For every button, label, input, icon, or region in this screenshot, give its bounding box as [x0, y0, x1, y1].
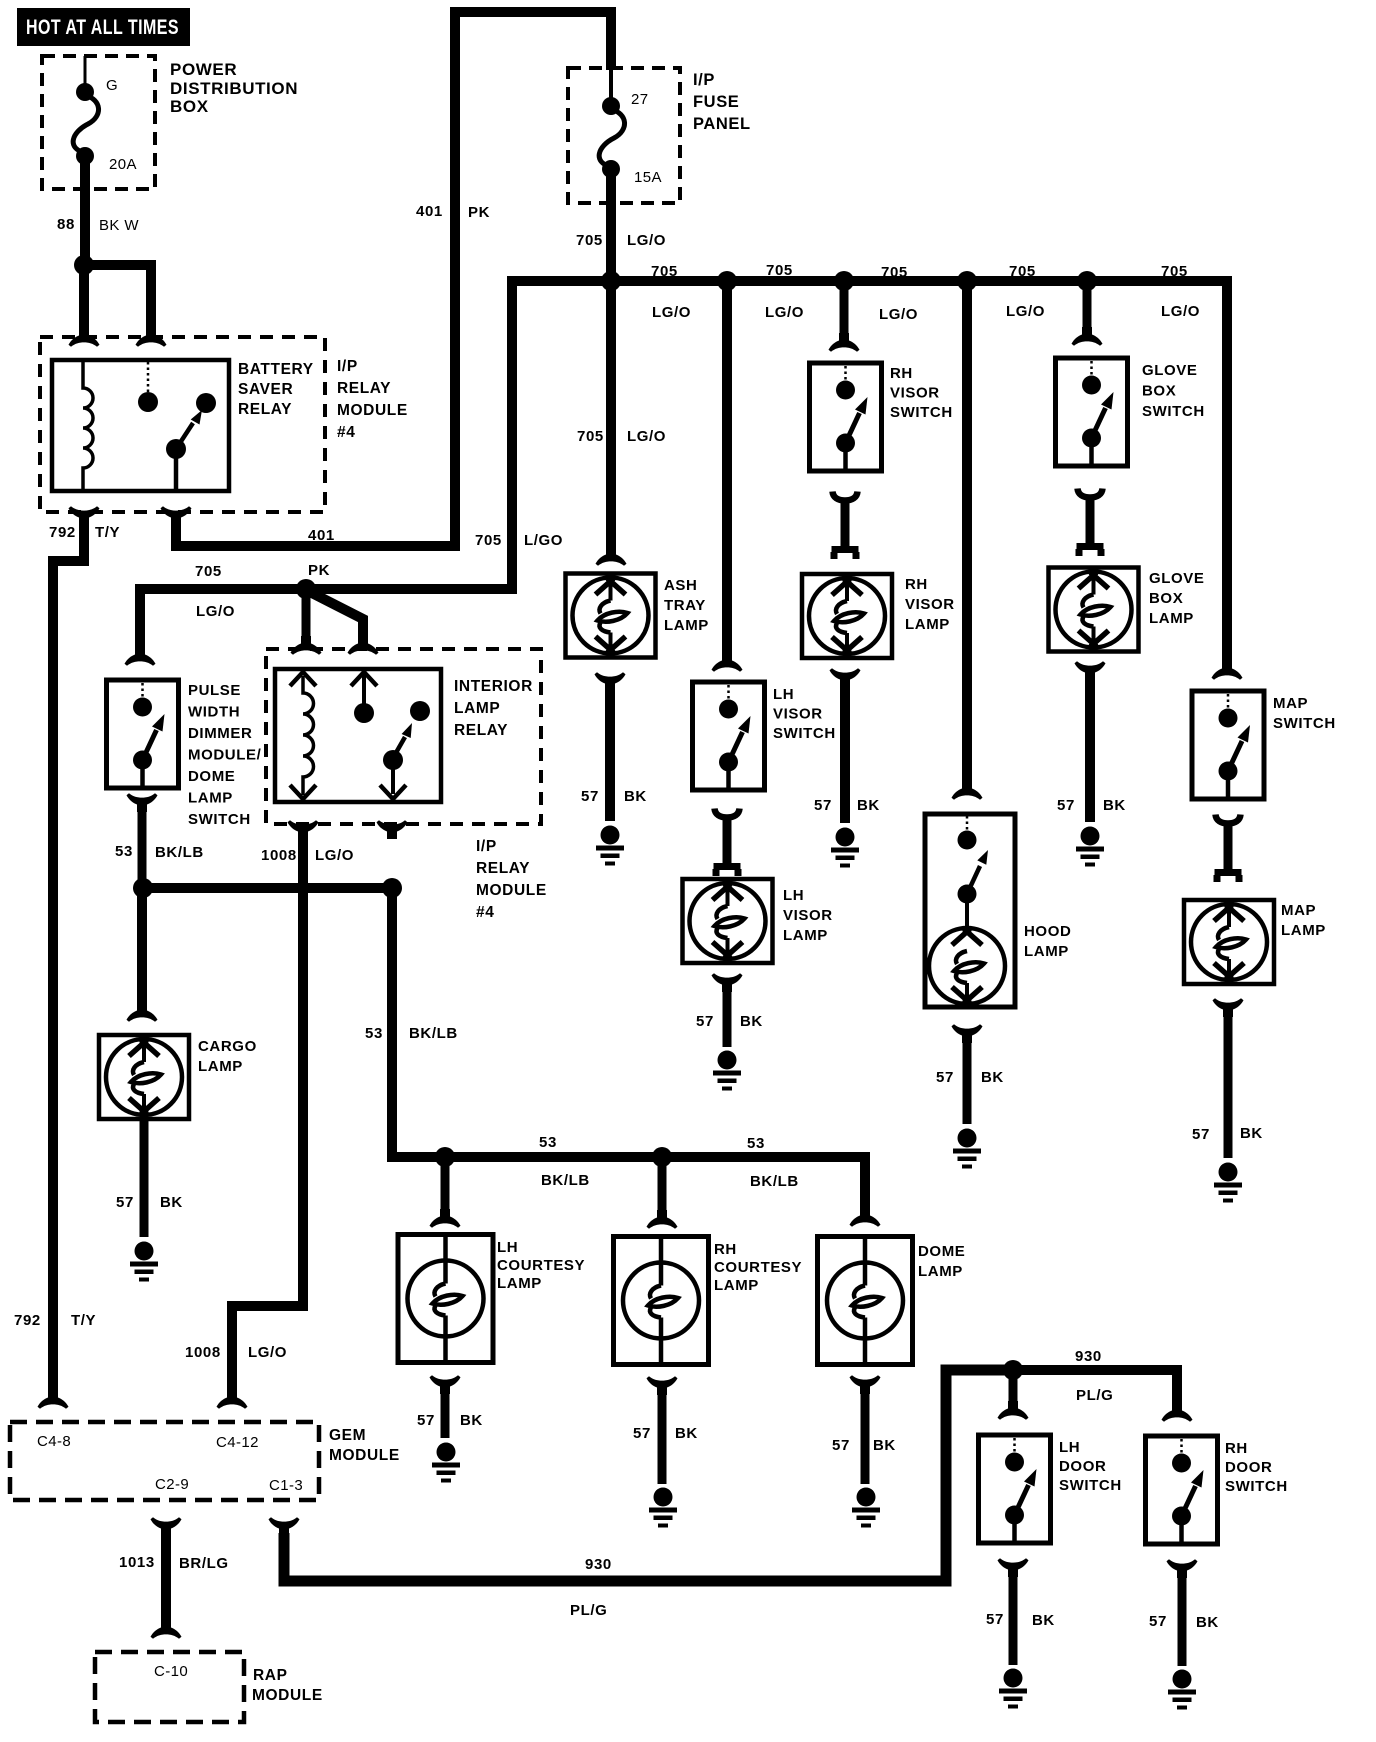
cargo lamp [99, 1035, 257, 1119]
connector above ash tray lamp [596, 547, 627, 566]
wire 57 BK hood lamp [936, 1040, 1004, 1124]
connector above map switch [1212, 661, 1243, 680]
svg-text:53: 53 [115, 843, 133, 860]
ground cargo lamp [130, 1242, 158, 1282]
svg-text:SWITCH: SWITCH [1225, 1478, 1288, 1495]
svg-text:LG/O: LG/O [248, 1344, 287, 1361]
svg-text:792: 792 [14, 1312, 41, 1329]
fuse 27 15A [599, 70, 662, 186]
hot at all times banner [17, 8, 190, 46]
svg-text:705: 705 [651, 263, 678, 280]
svg-text:57: 57 [581, 788, 599, 805]
svg-text:57: 57 [1057, 797, 1075, 814]
wire 1008 LG/O relay to GEM C4-12 [185, 836, 354, 1392]
connector below RH courtesy lamp [647, 1376, 678, 1395]
svg-text:VISOR: VISOR [890, 385, 940, 402]
svg-text:SWITCH: SWITCH [1059, 1477, 1122, 1494]
wire bus to RH visor switch [840, 281, 849, 337]
wire 57 BK LH courtesy [417, 1391, 483, 1438]
wire 930 PL/G to RH door switch [1013, 1348, 1177, 1407]
wire node to cargo lamp [137, 888, 147, 1007]
connector below pulse width dimmer [127, 793, 158, 812]
svg-text:BK: BK [740, 1013, 763, 1030]
svg-text:LAMP: LAMP [918, 1263, 963, 1280]
connector above glove box switch [1072, 327, 1103, 346]
hood lamp (switch + bulb) [925, 814, 1071, 1007]
svg-text:MODULE: MODULE [252, 1687, 323, 1704]
svg-text:LH: LH [773, 686, 794, 703]
svg-text:LG/O: LG/O [196, 603, 235, 620]
svg-text:53: 53 [747, 1135, 765, 1152]
svg-text:LAMP: LAMP [664, 617, 709, 634]
svg-text:MODULE/: MODULE/ [188, 747, 262, 764]
svg-text:57: 57 [116, 1194, 134, 1211]
svg-text:1013: 1013 [119, 1554, 155, 1571]
svg-text:LAMP: LAMP [714, 1277, 759, 1294]
svg-text:DOME: DOME [918, 1243, 965, 1260]
connector into relay module pin B [136, 328, 167, 347]
svg-text:705: 705 [577, 428, 604, 445]
svg-text:57: 57 [633, 1425, 651, 1442]
svg-text:27: 27 [631, 91, 649, 108]
svg-text:BOX: BOX [1149, 590, 1183, 607]
svg-text:TRAY: TRAY [664, 597, 706, 614]
connector below dome lamp [850, 1375, 881, 1394]
wire bus to LH visor switch [722, 281, 732, 657]
bus junction nodes [601, 271, 621, 291]
glove box lamp [1049, 568, 1205, 652]
svg-text:LAMP: LAMP [454, 700, 500, 717]
battery saver relay [52, 360, 314, 491]
svg-text:1008: 1008 [261, 847, 297, 864]
wire 57 BK LH door [986, 1574, 1055, 1665]
svg-text:DOOR: DOOR [1225, 1459, 1272, 1476]
node LH courtesy tap [435, 1147, 455, 1167]
svg-text:705: 705 [1009, 263, 1036, 280]
wire 792 T/Y left run [14, 516, 120, 1394]
svg-text:#4: #4 [476, 904, 494, 921]
svg-text:BK: BK [857, 797, 880, 814]
svg-text:BOX: BOX [1142, 383, 1176, 400]
svg-text:T/Y: T/Y [95, 524, 120, 541]
connector above RH courtesy lamp [647, 1210, 678, 1229]
svg-text:PANEL: PANEL [693, 115, 751, 133]
dome lamp [818, 1237, 966, 1365]
svg-text:LAMP: LAMP [783, 927, 828, 944]
battery saver relay switch arm [166, 393, 216, 491]
svg-text:LAMP: LAMP [1149, 610, 1194, 627]
svg-text:BATTERY: BATTERY [238, 361, 314, 378]
svg-text:SWITCH: SWITCH [1142, 403, 1205, 420]
RH visor lamp [802, 574, 955, 658]
svg-text:RELAY: RELAY [454, 722, 508, 739]
wire 930 PL/G from GEM to door switches [284, 1370, 1013, 1619]
wire to RH courtesy lamp [658, 1157, 667, 1214]
connector below RH door switch [1167, 1559, 1198, 1578]
wire node to interior lamp relay coil pin [302, 589, 311, 646]
svg-text:C4-8: C4-8 [37, 1433, 71, 1450]
svg-text:BK/LB: BK/LB [409, 1025, 458, 1042]
svg-text:LAMP: LAMP [1281, 922, 1326, 939]
svg-text:HOT AT ALL TIMES: HOT AT ALL TIMES [26, 16, 179, 39]
ground RH visor lamp [831, 828, 859, 868]
connector below LH door switch [998, 1558, 1029, 1577]
svg-text:LG/O: LG/O [652, 304, 691, 321]
bus 705 LG/O with right corner down to map switch [507, 281, 1227, 665]
node 930 junction [1003, 1360, 1023, 1380]
svg-text:LH: LH [1059, 1439, 1080, 1456]
connector out of relay module (792) [69, 506, 100, 525]
inline connector below LH visor switch [713, 809, 742, 877]
svg-text:LG/O: LG/O [1006, 303, 1045, 320]
interior lamp relay dashed box (I/P relay module #4) [266, 649, 547, 921]
ground hood lamp [953, 1129, 981, 1169]
pulse width dimmer module / dome lamp switch [107, 680, 262, 828]
battery saver relay coil [83, 360, 93, 491]
connector above RH visor switch [829, 333, 860, 352]
wire 53 BK/LB relay output down to courtesy bus [365, 888, 865, 1212]
wire bus to ash tray lamp [577, 281, 666, 551]
wire bus to hood lamp [962, 281, 972, 785]
svg-text:RH: RH [714, 1241, 737, 1258]
bus segment labels 705 LG/O [651, 262, 1200, 323]
svg-text:401: 401 [416, 203, 443, 220]
connector below glove box lamp [1075, 661, 1106, 680]
svg-text:RAP: RAP [253, 1667, 288, 1684]
svg-text:DOME: DOME [188, 768, 235, 785]
svg-text:401: 401 [308, 527, 335, 544]
ground LH courtesy lamp [432, 1443, 460, 1483]
svg-text:PULSE: PULSE [188, 682, 241, 699]
RH door switch [1146, 1436, 1288, 1544]
svg-text:BK: BK [1240, 1125, 1263, 1142]
connector below ash tray lamp [595, 672, 626, 691]
connector into RAP C-10 [151, 1620, 182, 1639]
svg-text:705: 705 [881, 264, 908, 281]
svg-text:INTERIOR: INTERIOR [454, 678, 533, 695]
svg-text:LAMP: LAMP [198, 1058, 243, 1075]
svg-text:MODULE: MODULE [337, 402, 408, 419]
svg-text:LG/O: LG/O [315, 847, 354, 864]
svg-text:57: 57 [696, 1013, 714, 1030]
interior relay coil with arrows [290, 672, 316, 799]
wire 705 LG/O fuse to bus [576, 175, 666, 281]
svg-text:RH: RH [905, 576, 928, 593]
fuse G 20A [73, 56, 137, 173]
connector out of GEM C1-3 [269, 1517, 300, 1536]
svg-text:LH: LH [783, 887, 804, 904]
svg-text:C2-9: C2-9 [155, 1476, 189, 1493]
ground ash tray lamp [596, 826, 624, 866]
svg-text:COURTESY: COURTESY [497, 1257, 585, 1274]
svg-text:20A: 20A [109, 156, 137, 173]
svg-text:LG/O: LG/O [1161, 303, 1200, 320]
inline connector below glove box switch [1076, 489, 1105, 557]
svg-text:DIMMER: DIMMER [188, 725, 252, 742]
svg-text:BK: BK [981, 1069, 1004, 1086]
svg-text:88: 88 [57, 216, 75, 233]
svg-text:BR/LG: BR/LG [179, 1555, 229, 1572]
svg-text:BOX: BOX [170, 97, 209, 116]
svg-text:T/Y: T/Y [71, 1312, 96, 1329]
ground RH courtesy lamp [649, 1488, 677, 1528]
svg-text:PL/G: PL/G [1076, 1387, 1113, 1404]
node junction 88 [74, 255, 94, 275]
svg-text:SWITCH: SWITCH [188, 811, 251, 828]
svg-text:RELAY: RELAY [476, 860, 530, 877]
svg-text:57: 57 [1192, 1126, 1210, 1143]
RH courtesy lamp [614, 1237, 803, 1365]
interior relay switch arm [380, 701, 430, 799]
connector above cargo lamp [127, 1003, 158, 1022]
svg-text:LG/O: LG/O [765, 304, 804, 321]
svg-text:MAP: MAP [1281, 902, 1316, 919]
connector into GEM C4-8 [38, 1390, 69, 1409]
node relay output [382, 878, 402, 898]
svg-text:705: 705 [576, 232, 603, 249]
ground glove box lamp [1076, 827, 1104, 867]
svg-text:SWITCH: SWITCH [773, 725, 836, 742]
svg-text:57: 57 [986, 1611, 1004, 1628]
bus left corner down to PK node [306, 276, 512, 589]
svg-text:BK W: BK W [99, 217, 139, 234]
svg-text:DISTRIBUTION: DISTRIBUTION [170, 79, 298, 98]
glove box switch [1056, 358, 1205, 466]
wire 57 BK cargo lamp [116, 1119, 183, 1237]
svg-text:LAMP: LAMP [905, 616, 950, 633]
node dimmer output [133, 878, 153, 898]
wire 401 PK from relay up to fuse panel [176, 12, 611, 546]
svg-text:15A: 15A [634, 169, 662, 186]
battery saver relay common pin [138, 362, 158, 412]
svg-text:COURTESY: COURTESY [714, 1259, 802, 1276]
ground LH visor lamp [713, 1051, 741, 1091]
svg-text:705: 705 [195, 563, 222, 580]
connector above hood lamp [952, 781, 983, 800]
connector above LH visor switch [712, 653, 743, 672]
connector above pulse width dimmer [125, 647, 156, 666]
svg-text:GLOVE: GLOVE [1142, 362, 1198, 379]
GEM module dashed box [10, 1422, 400, 1500]
svg-text:MAP: MAP [1273, 695, 1308, 712]
svg-text:SWITCH: SWITCH [1273, 715, 1336, 732]
svg-text:1008: 1008 [185, 1344, 221, 1361]
svg-text:930: 930 [1075, 1348, 1102, 1365]
svg-text:53: 53 [365, 1025, 383, 1042]
wire 57 BK RH visor lamp [814, 684, 880, 823]
svg-text:HOOD: HOOD [1024, 923, 1071, 940]
RAP module dashed box [95, 1652, 323, 1722]
svg-text:BK: BK [873, 1437, 896, 1454]
svg-text:57: 57 [417, 1412, 435, 1429]
node PK junction [296, 562, 330, 599]
interior relay common pin with up arrow [351, 672, 377, 723]
svg-text:BK: BK [675, 1425, 698, 1442]
svg-text:I/P: I/P [337, 358, 358, 375]
wire 53 cross link dimmer to relay output [143, 883, 392, 893]
wire to LH courtesy lamp [441, 1157, 450, 1213]
svg-text:LH: LH [497, 1239, 518, 1256]
svg-text:L/GO: L/GO [524, 532, 563, 549]
power distribution box [42, 56, 298, 189]
svg-text:BK/LB: BK/LB [750, 1173, 799, 1190]
svg-text:I/P: I/P [693, 71, 715, 89]
svg-text:MODULE: MODULE [329, 1447, 400, 1464]
svg-text:VISOR: VISOR [905, 596, 955, 613]
connector above RH door switch [1162, 1403, 1193, 1422]
svg-text:PL/G: PL/G [570, 1602, 607, 1619]
svg-text:LG/O: LG/O [627, 428, 666, 445]
connector out of GEM C2-9 [151, 1517, 182, 1536]
svg-text:GLOVE: GLOVE [1149, 570, 1205, 587]
node RH courtesy tap [652, 1147, 672, 1167]
svg-text:RH: RH [1225, 1440, 1248, 1457]
wire 57 BK map lamp [1192, 1014, 1263, 1158]
svg-text:RH: RH [890, 365, 913, 382]
ground LH door switch [999, 1669, 1027, 1709]
ground dome lamp [852, 1488, 880, 1528]
connector out of interior relay pin C [288, 820, 319, 839]
wire 1013 BR/LG [119, 1533, 229, 1623]
wire 57 BK RH courtesy [633, 1392, 698, 1484]
svg-text:705: 705 [475, 532, 502, 549]
svg-text:SWITCH: SWITCH [890, 404, 953, 421]
svg-text:C1-3: C1-3 [269, 1477, 303, 1494]
svg-text:57: 57 [1149, 1613, 1167, 1630]
svg-text:C4-12: C4-12 [216, 1434, 259, 1451]
wire 57 BK glove box lamp [1057, 677, 1126, 822]
svg-text:LAMP: LAMP [188, 790, 233, 807]
RH visor switch [810, 363, 953, 471]
svg-text:RELAY: RELAY [238, 401, 292, 418]
map switch [1192, 691, 1336, 799]
I/P fuse panel dashed box [568, 68, 751, 203]
svg-text:G: G [106, 77, 118, 94]
svg-text:LAMP: LAMP [1024, 943, 1069, 960]
svg-text:GEM: GEM [329, 1427, 366, 1444]
LH courtesy lamp [398, 1235, 585, 1363]
svg-text:WIDTH: WIDTH [188, 704, 240, 721]
svg-text:DOOR: DOOR [1059, 1458, 1106, 1475]
wire bus to glove box switch [1083, 281, 1092, 331]
svg-text:705: 705 [1161, 263, 1188, 280]
svg-text:57: 57 [936, 1069, 954, 1086]
svg-text:BK: BK [1032, 1612, 1055, 1629]
svg-text:VISOR: VISOR [783, 907, 833, 924]
svg-text:792: 792 [49, 524, 76, 541]
I/P relay module #4 dashed box (battery saver) [40, 337, 408, 512]
svg-text:LAMP: LAMP [497, 1275, 542, 1292]
svg-text:PK: PK [468, 204, 490, 221]
svg-text:CARGO: CARGO [198, 1038, 257, 1055]
svg-text:BK: BK [160, 1194, 183, 1211]
connector into relay module pin A [69, 328, 100, 347]
svg-text:BK: BK [460, 1412, 483, 1429]
connector above LH courtesy lamp [430, 1209, 461, 1228]
wire 705 LG/O to pulse width dimmer [140, 563, 306, 651]
svg-text:57: 57 [814, 797, 832, 814]
svg-text:POWER: POWER [170, 60, 237, 79]
connector below RH visor lamp [830, 668, 861, 687]
wire node to LH door switch [1009, 1370, 1018, 1405]
LH visor switch [693, 682, 836, 790]
LH door switch [979, 1435, 1122, 1543]
svg-text:BK: BK [1103, 797, 1126, 814]
connector below hood lamp [952, 1024, 983, 1043]
wire 57 BK LH visor lamp [696, 989, 763, 1047]
connector below LH courtesy lamp [430, 1375, 461, 1394]
svg-text:BK/LB: BK/LB [155, 844, 204, 861]
svg-text:ASH: ASH [664, 577, 697, 594]
connector above dome lamp [850, 1208, 881, 1227]
svg-text:LG/O: LG/O [627, 232, 666, 249]
wire 57 BK RH door [1149, 1575, 1219, 1666]
wire 57 BK ash tray [581, 688, 647, 821]
svg-text:MODULE: MODULE [476, 882, 547, 899]
ground RH door switch [1168, 1670, 1196, 1710]
LH visor lamp [683, 879, 833, 963]
svg-text:930: 930 [585, 1556, 612, 1573]
svg-text:PK: PK [308, 562, 330, 579]
svg-text:VISOR: VISOR [773, 706, 823, 723]
connector below map lamp [1213, 998, 1244, 1017]
svg-text:57: 57 [832, 1437, 850, 1454]
svg-text:705: 705 [766, 262, 793, 279]
ground map lamp [1214, 1163, 1242, 1203]
connector below LH visor lamp [712, 973, 743, 992]
svg-text:RELAY: RELAY [337, 380, 391, 397]
wire 88 BK/W [57, 160, 139, 265]
inline connector below map switch [1214, 815, 1243, 883]
connector into GEM C4-12 [217, 1390, 248, 1409]
connector out of interior relay pin D [377, 820, 408, 839]
inline connector below RH visor switch [831, 492, 860, 560]
svg-text:BK: BK [624, 788, 647, 805]
svg-text:C-10: C-10 [154, 1663, 188, 1680]
svg-text:BK: BK [1196, 1614, 1219, 1631]
svg-text:LG/O: LG/O [879, 306, 918, 323]
wire junction to battery saver relay pins [84, 265, 151, 334]
wire 57 BK dome lamp [832, 1391, 896, 1484]
connector out of relay module (401) [161, 506, 192, 525]
interior lamp relay [275, 669, 533, 802]
ash tray lamp [566, 574, 709, 658]
svg-text:#4: #4 [337, 424, 355, 441]
wire node diagonal to interior lamp relay switch pin [308, 591, 363, 646]
svg-text:BK/LB: BK/LB [541, 1172, 590, 1189]
svg-text:I/P: I/P [476, 838, 497, 855]
connector above LH door switch [998, 1401, 1029, 1420]
map lamp [1184, 900, 1326, 984]
svg-text:FUSE: FUSE [693, 93, 739, 111]
svg-text:53: 53 [539, 1134, 557, 1151]
connector into interior relay pin A [291, 636, 322, 655]
connector into interior relay pin B [348, 636, 379, 655]
svg-text:SAVER: SAVER [238, 381, 293, 398]
wire 53 BK/LB dimmer to node [115, 809, 204, 880]
